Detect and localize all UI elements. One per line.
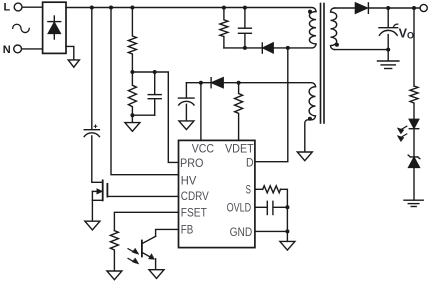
node output-cap [386,6,390,10]
svg-text:S: S [246,183,251,197]
node rail-C1 [90,6,94,10]
IC U1 box [179,140,255,247]
primary polarity dot [308,10,312,14]
aux polarity dot [308,117,312,121]
wire bridge output to top rail [66,8,316,12]
node GND [285,229,289,233]
node R2-C2 bottom [130,113,134,117]
resistor R5 FSET [110,231,118,271]
diode D2 VCC [211,78,223,88]
wire rail to HV pin [111,8,179,175]
ground arrow optocoupler [149,270,164,279]
bridge rectifier BR1 box [43,2,66,53]
resistor R4 VDET [235,83,243,141]
wire secondary bottom to cap [335,49,389,51]
terminal N [14,45,22,53]
node cap bottom [386,48,390,52]
wire VCC node rail [186,82,211,84]
capacitor C1 bulk electrolytic [84,125,99,137]
wire secondary top to output diode [335,7,356,9]
svg-text:VO: VO [399,26,414,40]
wire FB pin to optocoupler [156,229,179,236]
node primary-D [286,46,290,50]
secondary polarity dot [335,43,339,47]
terminal L [14,3,22,11]
transistor Q1 MOSFET [92,180,178,221]
wire OVLD pin to C5 [255,206,267,208]
node rail-C3 [243,6,247,10]
resistor R2 [128,72,136,115]
transformer core [321,4,325,124]
svg-text:VDET: VDET [225,142,254,156]
svg-text:FSET: FSET [181,206,208,220]
zener diode D5 [408,155,420,167]
transformer T1 aux winding [305,87,316,152]
optocoupler phototransistor Q2 [142,236,156,269]
resistor R3 snubber [220,8,228,48]
AC source symbol [13,24,30,32]
wire L to bridge [22,6,42,8]
diode D1 snubber [262,43,273,53]
wire diode to aux winding [223,83,315,87]
capacitor C3 snubber [239,8,252,48]
node rail-HV [109,6,113,10]
svg-text:PRO: PRO [180,156,204,170]
LED D4 [409,119,418,128]
resistor R1 [128,8,136,73]
wire snubber bottom [224,47,262,49]
wire R7 to gnd riser [281,189,288,241]
LED light arrows [397,126,407,141]
wire cap bottom to earth [387,50,389,61]
wire C2 bottom to R2 bottom [132,115,154,122]
bridge rectifier diode symbol [48,16,61,39]
resistor R6 [410,86,418,119]
node rail-R1 [130,6,134,10]
wire output node [368,7,420,9]
transformer T1 primary winding [309,12,316,44]
earth ground output [378,61,399,69]
svg-text:FB: FB [181,223,194,237]
wire N to bridge [22,48,43,50]
node C3 bottom [243,46,247,50]
wire VCC pin [200,83,202,141]
wire zener to earth [413,167,415,200]
wire C1 to MOSFET drain [92,136,103,182]
node OVLD [285,205,289,209]
svg-text:N: N [3,44,11,56]
node C2 top [153,70,157,74]
wire FSET pin to R5 [114,212,178,230]
svg-text:CDRV: CDRV [181,189,209,203]
wire D pin riser [255,48,288,162]
node rail-R3 [222,6,226,10]
ground arrow R2C2 [125,123,140,132]
node R1-R2 [130,70,134,74]
wire output to R6 [413,8,415,86]
wire LED to zener [413,129,415,157]
wire S pin to R7 [255,188,263,190]
svg-text:HV: HV [181,173,197,187]
node VDET [237,81,241,85]
wire diode to primary bottom [273,44,316,48]
capacitor C4 VCC [178,83,194,121]
svg-text:OVLD: OVLD [227,201,252,215]
capacitor C6 output electrolytic [379,8,398,50]
wire bridge to ground [66,46,74,60]
transformer T1 secondary winding [331,8,337,50]
wire GND pin [255,230,287,232]
node VCC [199,81,203,85]
wire rail to bulk capacitor [91,8,93,130]
svg-text:VCC: VCC [192,142,214,156]
resistor R7 sense [263,186,281,193]
ground arrow bridge [68,60,79,67]
diode D3 output rectifier [355,3,368,13]
ground arrow IC GND [280,241,295,250]
wire junction to PRO pin [132,72,178,162]
svg-text:L: L [4,2,11,14]
svg-text:D: D [246,155,254,169]
earth ground zener [404,200,423,206]
node output-terminal [412,6,416,10]
ground arrow VCC cap [179,121,194,130]
ground arrow aux [297,152,312,161]
capacitor C2 [148,72,161,115]
terminal output [420,4,427,11]
ground arrow MOSFET source [85,221,100,230]
capacitor C5 OVLD [267,201,287,214]
optocoupler light arrows [128,248,139,264]
ground arrow FSET [107,271,122,280]
svg-text:GND: GND [230,225,253,239]
